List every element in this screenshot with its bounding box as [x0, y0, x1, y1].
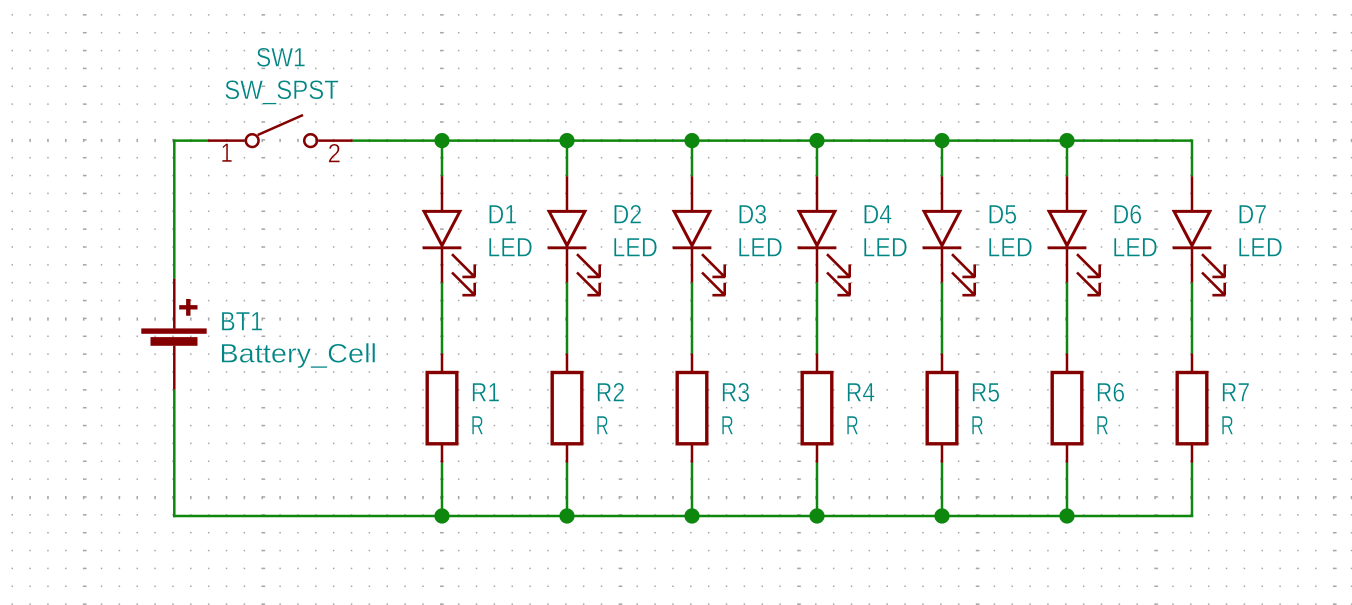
LED D5 anode pin [941, 176, 944, 211]
LED D4 reference label [863, 200, 893, 230]
LED D7 cathode pin [1191, 248, 1194, 283]
svg-text:2: 2 [328, 139, 341, 169]
battery BT1 positive plate [141, 328, 206, 333]
LED D4 triangle [799, 211, 835, 245]
LED D1 triangle [424, 211, 460, 245]
LED D2 triangle [549, 211, 585, 245]
node branch 3 top wire [691, 141, 694, 177]
LED D5 emission arrow 2 [952, 273, 975, 296]
svg-text:R7: R7 [1221, 377, 1250, 407]
resistor R7 value label R [1221, 410, 1234, 440]
resistor R2 body [552, 373, 582, 444]
svg-text:LED: LED [862, 233, 908, 263]
wire resistor R5 to bottom rail [941, 463, 944, 516]
node branch 2 top wire [566, 141, 569, 177]
svg-text:D2: D2 [613, 200, 643, 230]
svg-text:R: R [721, 410, 734, 440]
resistor R1 top pin [441, 353, 444, 372]
LED D5 triangle [924, 211, 960, 245]
resistor R3 reference label [721, 377, 750, 407]
junction top rail branch 4 [809, 133, 824, 148]
svg-text:D5: D5 [988, 200, 1018, 230]
switch SW1 reference label [256, 42, 306, 72]
LED D3 triangle [674, 211, 710, 245]
junction top rail branch 6 [1059, 133, 1074, 148]
LED D6 value label LED [1112, 233, 1158, 263]
LED D7 anode pin [1191, 176, 1194, 211]
wire resistor R6 to bottom rail [1066, 463, 1069, 516]
resistor R3 body [677, 373, 707, 444]
LED D1 reference label [488, 200, 518, 230]
LED D3 anode pin [691, 176, 694, 211]
LED D4 cathode pin [816, 248, 819, 283]
resistor R3 bottom pin [691, 445, 694, 463]
switch SW1 value label SW_SPST [224, 75, 339, 105]
junction top rail branch 2 [559, 133, 574, 148]
junction top rail branch 5 [934, 133, 949, 148]
resistor R6 top pin [1066, 353, 1069, 372]
resistor R7 top pin [1191, 353, 1194, 372]
svg-text:1: 1 [221, 138, 233, 168]
LED D3 emission arrow 1 [702, 254, 725, 277]
resistor R6 bottom pin [1066, 445, 1069, 463]
LED D6 reference label [1113, 200, 1143, 230]
svg-text:Battery_Cell: Battery_Cell [219, 338, 377, 368]
wire top rail left (battery to switch) [173, 139, 208, 142]
LED D1 cathode bar [423, 246, 462, 249]
battery BT1 value label Battery_Cell [219, 338, 377, 368]
LED D7 value label LED [1237, 233, 1283, 263]
svg-text:R: R [1096, 410, 1109, 440]
svg-text:SW_SPST: SW_SPST [224, 75, 339, 105]
LED D7 emission arrow 1 [1202, 254, 1225, 277]
LED D2 emission arrow 2 [577, 273, 600, 296]
svg-text:R: R [471, 410, 484, 440]
svg-text:R1: R1 [471, 377, 500, 407]
LED D5 cathode pin [941, 248, 944, 283]
resistor R6 reference label [1096, 377, 1125, 407]
LED D4 emission arrow 2 [827, 273, 850, 296]
svg-text:LED: LED [1112, 233, 1158, 263]
resistor R1 value label R [471, 410, 484, 440]
resistor R3 top pin [691, 353, 694, 372]
svg-text:R3: R3 [721, 377, 750, 407]
LED D4 anode pin [816, 176, 819, 211]
node branch 6 top wire [1066, 141, 1069, 177]
battery BT1 reference label [220, 307, 263, 337]
switch SW1 pin number 2 [328, 139, 341, 169]
svg-text:D3: D3 [738, 200, 768, 230]
resistor R5 reference label [971, 377, 1000, 407]
junction bottom rail branch 2 [559, 508, 574, 523]
svg-text:D7: D7 [1238, 200, 1268, 230]
LED D5 value label LED [987, 233, 1033, 263]
wire between LED D7 and resistor R7 [1191, 283, 1194, 354]
LED D4 value label LED [862, 233, 908, 263]
LED D5 cathode bar [923, 246, 962, 249]
switch SW1 lever [258, 115, 303, 135]
LED D6 cathode pin [1066, 248, 1069, 283]
resistor R4 body [802, 373, 832, 444]
svg-text:D6: D6 [1113, 200, 1143, 230]
resistor R5 bottom pin [941, 445, 944, 463]
LED D4 cathode bar [798, 246, 837, 249]
LED D6 emission arrow 2 [1077, 273, 1100, 296]
LED D5 reference label [988, 200, 1018, 230]
node branch 5 top wire [941, 141, 944, 177]
resistor R2 top pin [566, 353, 569, 372]
wire left vertical battery branch upper [173, 139, 176, 278]
LED D6 anode pin [1066, 176, 1069, 211]
resistor R3 value label R [721, 410, 734, 440]
resistor R1 body [427, 373, 457, 444]
resistor R4 bottom pin [816, 445, 819, 463]
LED D3 cathode bar [673, 246, 712, 249]
wire between LED D6 and resistor R6 [1066, 283, 1069, 354]
battery BT1 plus sign [179, 299, 197, 316]
wire between LED D1 and resistor R1 [441, 283, 444, 354]
LED D1 emission arrow 2 [452, 273, 475, 296]
junction bottom rail branch 3 [684, 508, 699, 523]
LED D2 emission arrow 1 [577, 254, 600, 277]
LED D3 value label LED [737, 233, 783, 263]
svg-text:R: R [846, 410, 859, 440]
resistor R1 bottom pin [441, 445, 444, 463]
wire top rail right (switch to D7 corner) [353, 139, 1192, 142]
svg-text:LED: LED [1237, 233, 1283, 263]
svg-text:D1: D1 [488, 200, 518, 230]
resistor R5 value label R [971, 410, 984, 440]
junction bottom rail branch 1 [434, 508, 449, 523]
resistor R4 top pin [816, 353, 819, 372]
svg-text:R5: R5 [971, 377, 1000, 407]
LED D1 cathode pin [441, 248, 444, 283]
wire left vertical battery branch lower [173, 390, 176, 518]
svg-text:R4: R4 [846, 377, 875, 407]
LED D5 emission arrow 1 [952, 254, 975, 277]
resistor R2 bottom pin [566, 445, 569, 463]
wire bottom rail [173, 515, 1193, 518]
LED D7 reference label [1238, 200, 1268, 230]
LED D4 emission arrow 1 [827, 254, 850, 277]
junction top rail branch 1 [434, 133, 449, 148]
wire between LED D3 and resistor R3 [691, 283, 694, 354]
LED D6 triangle [1049, 211, 1085, 245]
LED D2 anode pin [566, 176, 569, 211]
LED D7 triangle [1174, 211, 1210, 245]
LED D2 cathode pin [566, 248, 569, 283]
LED D1 value label LED [487, 233, 533, 263]
LED D1 anode pin [441, 176, 444, 211]
wire D7 right vertical upper [1191, 139, 1194, 176]
wire resistor R1 to bottom rail [441, 463, 444, 516]
svg-text:BT1: BT1 [220, 307, 263, 337]
LED D6 emission arrow 1 [1077, 254, 1100, 277]
node branch 4 top wire [816, 141, 819, 177]
switch SW1 pin 1 lead [208, 139, 244, 142]
resistor R2 value label R [596, 410, 609, 440]
wire between LED D4 and resistor R4 [816, 283, 819, 354]
LED D3 cathode pin [691, 248, 694, 283]
svg-text:R2: R2 [596, 377, 625, 407]
resistor R2 reference label [596, 377, 625, 407]
switch SW1 right contact circle [304, 134, 317, 147]
svg-text:LED: LED [987, 233, 1033, 263]
svg-text:R: R [971, 410, 984, 440]
resistor R6 value label R [1096, 410, 1109, 440]
svg-text:SW1: SW1 [256, 42, 306, 72]
wire between LED D5 and resistor R5 [941, 283, 944, 354]
junction top rail branch 3 [684, 133, 699, 148]
svg-text:LED: LED [612, 233, 658, 263]
LED D2 cathode bar [548, 246, 587, 249]
junction bottom rail branch 5 [934, 508, 949, 523]
switch SW1 pin number 1 [221, 138, 233, 168]
LED D2 reference label [613, 200, 643, 230]
switch SW1 pin 2 lead [318, 139, 352, 142]
resistor R6 body [1052, 373, 1082, 444]
node branch 1 top wire [441, 141, 444, 177]
resistor R7 reference label [1221, 377, 1250, 407]
wire resistor R7 to bottom rail [1191, 463, 1194, 516]
LED D1 emission arrow 1 [452, 254, 475, 277]
wire between LED D2 and resistor R2 [566, 283, 569, 354]
LED D7 cathode bar [1173, 246, 1212, 249]
LED D3 reference label [738, 200, 768, 230]
switch SW1 left contact circle [246, 134, 259, 147]
LED D6 cathode bar [1048, 246, 1087, 249]
resistor R1 reference label [471, 377, 500, 407]
battery BT1 bottom pin [173, 346, 176, 390]
resistor R7 body [1177, 373, 1207, 444]
svg-text:R: R [1221, 410, 1234, 440]
LED D2 value label LED [612, 233, 658, 263]
resistor R5 top pin [941, 353, 944, 372]
LED D7 emission arrow 2 [1202, 273, 1225, 296]
resistor R4 reference label [846, 377, 875, 407]
svg-text:LED: LED [737, 233, 783, 263]
resistor R4 value label R [846, 410, 859, 440]
svg-text:LED: LED [487, 233, 533, 263]
resistor R7 bottom pin [1191, 445, 1194, 463]
battery BT1 negative plate [151, 337, 198, 346]
junction bottom rail branch 6 [1059, 508, 1074, 523]
wire resistor R2 to bottom rail [566, 463, 569, 516]
battery BT1 top pin [173, 279, 176, 329]
junction bottom rail branch 4 [809, 508, 824, 523]
svg-text:D4: D4 [863, 200, 893, 230]
svg-text:R6: R6 [1096, 377, 1125, 407]
wire resistor R4 to bottom rail [816, 463, 819, 516]
wire resistor R3 to bottom rail [691, 463, 694, 516]
svg-text:R: R [596, 410, 609, 440]
resistor R5 body [927, 373, 957, 444]
LED D3 emission arrow 2 [702, 273, 725, 296]
